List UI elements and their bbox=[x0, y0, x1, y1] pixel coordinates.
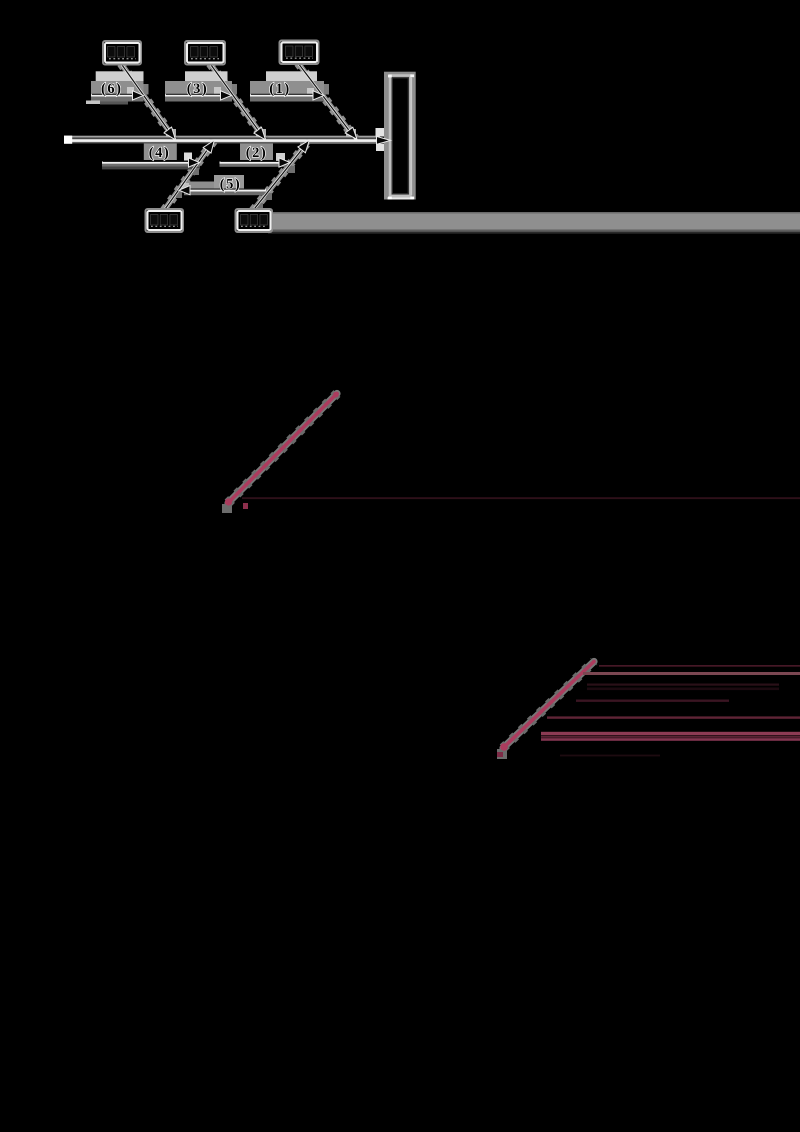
svg-text:(5): (5) bbox=[220, 176, 241, 192]
light block behind arrowhead u1 bbox=[307, 88, 314, 96]
spine under-shadow left segment bbox=[72, 142, 300, 144]
box B top-middle bbox=[185, 41, 225, 65]
light cell below spine arrowhead bbox=[376, 144, 384, 151]
gray cells along diagonal D bbox=[192, 168, 199, 175]
white+dark core: diagonal E bbox=[253, 141, 309, 211]
spine under-shadow right segment bbox=[300, 142, 384, 144]
halo: diagonal E bbox=[253, 141, 309, 211]
white+dark core: diagonal A bbox=[121, 64, 175, 140]
label unit (1): bands bbox=[250, 71, 329, 101]
arrowhead: diagonal C into spine bbox=[345, 127, 357, 139]
light cells above spine junction A bbox=[166, 129, 176, 137]
svg-text:(3): (3) bbox=[187, 81, 208, 97]
light cells above spine junction C bbox=[346, 129, 356, 137]
white+dark core: diagonal D bbox=[164, 141, 214, 211]
box E bottom-middle bbox=[236, 209, 273, 232]
label patch (5) bbox=[184, 175, 266, 195]
arrowhead: diagonal D into spine bbox=[203, 140, 214, 153]
label patch (2) bbox=[220, 144, 292, 167]
box C top-right bbox=[280, 41, 319, 65]
halo: diagonal C bbox=[298, 63, 356, 140]
gray cells along diagonal E bbox=[288, 166, 295, 173]
spine white core bbox=[64, 139, 380, 142]
gray band right of diagram bbox=[268, 212, 800, 234]
result tall box bbox=[384, 72, 416, 200]
red pen stroke 2 bbox=[497, 662, 594, 760]
arrowhead: diagonal E into spine bbox=[298, 140, 309, 153]
underline arrow (4) bbox=[102, 158, 200, 167]
halo: diagonal A bbox=[121, 64, 175, 140]
light block behind arrowhead u5 bbox=[181, 183, 189, 191]
underline arrow (1) bbox=[250, 91, 324, 100]
red streak lines right of stroke 2 bbox=[541, 665, 800, 756]
spine start blob bbox=[64, 136, 72, 144]
white+dark core: diagonal B bbox=[210, 64, 265, 140]
light block behind arrowhead u4 bbox=[184, 153, 192, 161]
underline arrow (3) bbox=[165, 91, 232, 100]
label unit (3): bands bbox=[165, 71, 237, 101]
box A top-left bbox=[103, 41, 141, 65]
white+dark core: diagonal C bbox=[298, 63, 356, 140]
box D bottom-left bbox=[146, 209, 184, 232]
light cell above spine arrowhead bbox=[376, 128, 385, 137]
halo: diagonal D bbox=[164, 141, 214, 211]
red pen stroke 1 bbox=[222, 392, 339, 513]
arrowhead: diagonal B into spine bbox=[254, 127, 266, 140]
underline arrow (5) left-pointing bbox=[179, 186, 266, 195]
svg-text:(6): (6) bbox=[101, 81, 122, 97]
label patch (4) bbox=[102, 144, 200, 170]
halo: spine bbox=[64, 136, 380, 140]
faint red streak at y498 bbox=[242, 497, 800, 499]
halo: diagonal B bbox=[210, 64, 265, 140]
label unit (6): bands bbox=[86, 71, 149, 104]
spine dark core bbox=[66, 137, 378, 139]
light cells above spine junction B bbox=[256, 129, 266, 137]
light block behind arrowhead u2 bbox=[276, 153, 285, 161]
light block behind arrowhead u3 bbox=[214, 87, 221, 95]
light block behind arrowhead u6 bbox=[127, 87, 134, 95]
svg-text:(4): (4) bbox=[149, 145, 170, 161]
svg-text:(2): (2) bbox=[246, 145, 267, 161]
arrowhead: spine into result box bbox=[377, 136, 391, 144]
underline arrow (6) bbox=[91, 91, 144, 100]
underline arrow (2) bbox=[220, 158, 291, 167]
svg-text:(1): (1) bbox=[269, 81, 290, 97]
arrowhead: diagonal A into spine bbox=[164, 127, 176, 140]
